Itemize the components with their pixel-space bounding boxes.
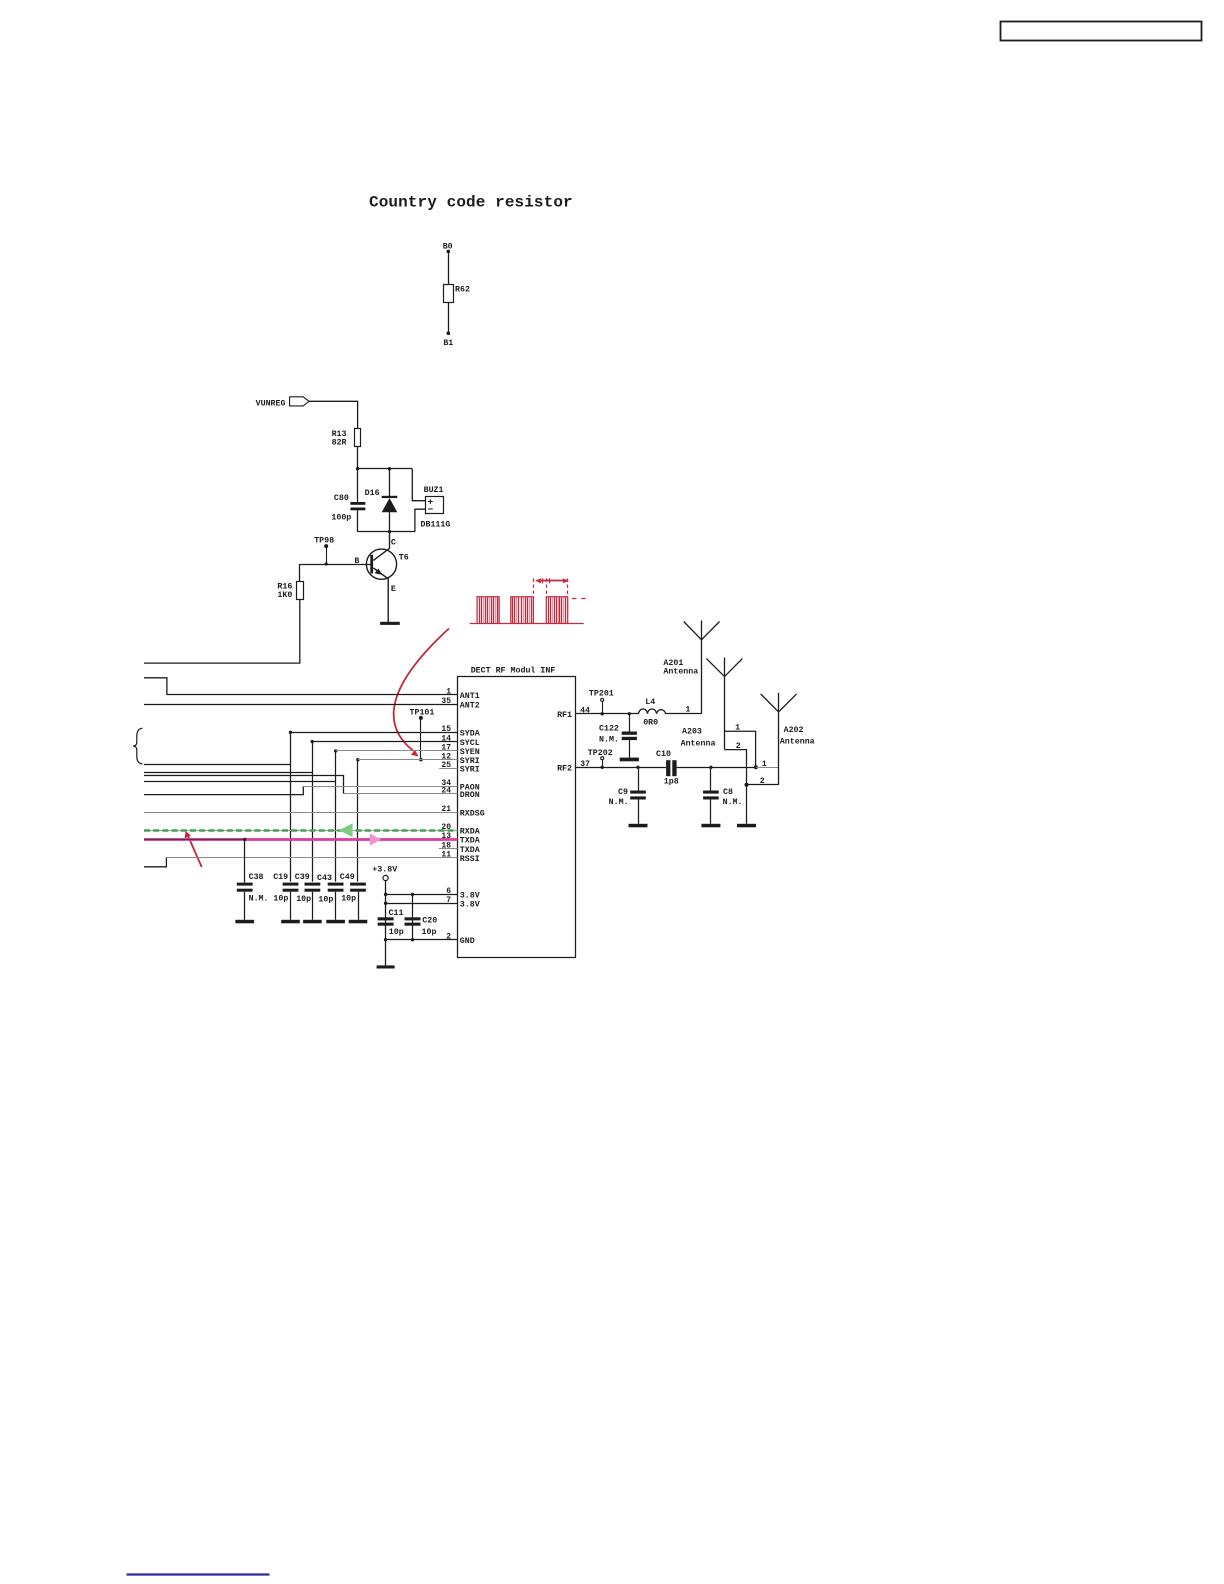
svg-text:20: 20 (441, 823, 451, 832)
svg-text:A202: A202 (784, 726, 804, 735)
svg-text:1K0: 1K0 (277, 591, 292, 600)
junction node C122 (628, 712, 631, 715)
svg-text:10p: 10p (341, 894, 356, 903)
svg-text:+3.8V: +3.8V (372, 866, 397, 875)
antenna A203 (724, 658, 726, 750)
wire buzzer minus (415, 509, 425, 532)
svg-text:13: 13 (441, 832, 451, 841)
svg-text:N.M.: N.M. (249, 894, 269, 903)
svg-text:Country code resistor: Country code resistor (369, 194, 573, 212)
svg-text:TXDA: TXDA (460, 837, 480, 846)
svg-text:1: 1 (735, 723, 740, 732)
pin 17 SYEN wire (336, 750, 458, 752)
svg-text:Antenna: Antenna (681, 740, 716, 749)
svg-text:RF2: RF2 (557, 765, 572, 774)
svg-text:10p: 10p (273, 894, 288, 903)
svg-text:TP98: TP98 (314, 536, 334, 545)
svg-text:RSSI: RSSI (460, 855, 480, 864)
node B1 (447, 331, 451, 335)
ground under +3.8V rail (377, 965, 395, 968)
svg-text:2: 2 (760, 777, 765, 786)
svg-text:−: − (428, 504, 434, 515)
svg-text:1: 1 (446, 687, 451, 696)
svg-text:7: 7 (446, 896, 451, 905)
pin 12 SYRI wire (358, 759, 458, 761)
capacitor C9 N.M. (636, 766, 639, 769)
svg-text:DECT RF Modul INF: DECT RF Modul INF (471, 666, 556, 676)
pin 20 RXDA wire (green dashed) (144, 830, 458, 832)
pin 24 DRON wire (344, 793, 458, 795)
svg-text:10p: 10p (318, 895, 333, 904)
svg-text:C122: C122 (599, 725, 619, 734)
ground under C39 (303, 920, 322, 924)
svg-text:RF1: RF1 (557, 711, 572, 720)
svg-text:10p: 10p (422, 928, 437, 937)
capacitor C39 10p (305, 883, 321, 886)
wire SYDA column (290, 732, 292, 881)
svg-text:TXDA: TXDA (460, 846, 480, 855)
junction node A203 pin1 / RF2 (754, 765, 758, 769)
svg-text:E: E (391, 585, 396, 594)
svg-text:C8: C8 (723, 788, 733, 797)
svg-text:ANT1: ANT1 (460, 692, 480, 701)
ground under C9 (629, 824, 648, 828)
capacitor C80 100p (357, 469, 359, 502)
svg-text:3.8V: 3.8V (460, 901, 480, 910)
wire L4 to A201 (666, 713, 702, 715)
ground under C38 (235, 920, 254, 924)
svg-text:35: 35 (441, 697, 451, 706)
svg-text:100p: 100p (331, 514, 351, 523)
link underline (blue) (127, 1573, 270, 1575)
svg-text:25: 25 (441, 761, 451, 770)
wire top rail (358, 468, 413, 470)
capacitor C11 10p (378, 917, 394, 920)
svg-text:GND: GND (460, 937, 475, 946)
svg-text:21: 21 (441, 805, 451, 814)
waveform dashed extension lines (533, 579, 535, 597)
wire return to ground (746, 785, 748, 824)
svg-text:C38: C38 (249, 873, 264, 882)
svg-text:SYRI: SYRI (460, 766, 480, 775)
waveform dimension arrow (537, 580, 567, 582)
svg-text:3.8V: 3.8V (460, 892, 480, 901)
capacitor C49 10p (350, 883, 366, 886)
svg-text:ANT2: ANT2 (460, 701, 480, 710)
ground at emitter (380, 622, 400, 625)
wire C10 to A203 junction (677, 767, 756, 769)
wire R62 to B1 (448, 302, 450, 333)
waveform tick dashes on dimension line (542, 578, 544, 583)
svg-text:2: 2 (446, 933, 451, 942)
svg-text:A203: A203 (682, 728, 702, 737)
wire SYEN column (335, 751, 337, 882)
svg-text:RXDSG: RXDSG (460, 809, 485, 818)
svg-text:TP201: TP201 (589, 690, 614, 699)
svg-text:Antenna: Antenna (663, 668, 698, 677)
wire DRON link (144, 776, 344, 794)
svg-text:DRON: DRON (460, 791, 480, 800)
pin 14 SYCL wire (312, 741, 457, 743)
svg-text:C10: C10 (656, 750, 671, 759)
junction node return (745, 783, 749, 787)
wire SYEN link (144, 781, 336, 783)
ground under C122 (620, 758, 639, 762)
resistor R62 (444, 285, 454, 303)
pin 18 TXDA (439, 848, 458, 850)
capacitor C38 N.M. (244, 839, 246, 882)
svg-text:C39: C39 (295, 873, 310, 882)
svg-text:DB111G: DB111G (421, 520, 451, 529)
pin 1 ANT1 wire (144, 678, 458, 695)
wire VUNREG to R13 (309, 401, 358, 428)
wire bottom rail (358, 531, 415, 533)
capacitor C20 10p (412, 894, 414, 939)
wire B0 to R62 (448, 251, 450, 284)
antenna A201 (701, 621, 703, 714)
wire SYCL column (312, 742, 314, 882)
svg-text:10p: 10p (296, 895, 311, 904)
svg-text:18: 18 (441, 841, 451, 850)
svg-text:C9: C9 (618, 788, 628, 797)
pin 13 TXDA wire (magenta) (144, 838, 458, 841)
ground under antenna return (737, 824, 756, 828)
ground under C49 (349, 920, 368, 924)
svg-text:C80: C80 (334, 494, 349, 503)
green arrow (receive direction) (339, 823, 353, 837)
svg-text:15: 15 (441, 725, 451, 734)
svg-text:C: C (391, 539, 396, 548)
svg-text:C49: C49 (340, 873, 355, 882)
pin 11 RSSI wire (144, 858, 166, 867)
capacitor C43 10p (328, 883, 344, 886)
svg-text:0R0: 0R0 (643, 719, 658, 728)
svg-text:C43: C43 (317, 874, 332, 883)
antenna A202 (778, 693, 780, 785)
pin 21 RXDSG wire (144, 812, 458, 814)
wire +3.8V rail (385, 881, 387, 966)
svg-text:10p: 10p (389, 928, 404, 937)
pin 25 SYRI (439, 768, 457, 770)
annotation red arc to TP101 (394, 629, 449, 752)
wire A202 pin 2 (747, 784, 779, 786)
resistor R13 (355, 429, 361, 447)
svg-text:82R: 82R (332, 439, 347, 448)
capacitor C8 N.M. (709, 766, 712, 769)
svg-text:R62: R62 (455, 285, 470, 294)
ground under C8 (701, 824, 720, 828)
pin 15 SYDA wire (291, 732, 458, 734)
wire A203 pin 2 (725, 750, 747, 785)
bus brace (left) (133, 728, 142, 764)
pin 34 PAON wire (303, 786, 457, 788)
annotation red arrow at RXDA/TXDA (188, 836, 202, 867)
svg-text:17: 17 (441, 744, 451, 753)
svg-text:2: 2 (736, 742, 741, 751)
svg-text:6: 6 (446, 887, 451, 896)
svg-text:1: 1 (762, 760, 767, 769)
ground under C43 (326, 920, 345, 924)
svg-text:SYDA: SYDA (460, 730, 480, 739)
wire R16 to left edge (144, 600, 300, 663)
svg-text:C20: C20 (422, 917, 437, 926)
junction node at D16 top (388, 467, 391, 470)
wire A203 pin 1 (725, 731, 756, 767)
svg-text:C11: C11 (389, 909, 404, 918)
wire SYCL link (144, 772, 312, 774)
magenta arrow (transmit direction) (370, 833, 381, 845)
ground under C19 (281, 920, 300, 924)
waveform trailing dashes (572, 598, 576, 600)
inductor L4 0R0 (639, 709, 666, 714)
capacitor C10 1p8 (series) (666, 760, 670, 776)
svg-text:D16: D16 (365, 489, 380, 498)
svg-text:1: 1 (685, 706, 690, 715)
diode D16 (389, 469, 391, 496)
pin 44 RF1 wire (575, 713, 638, 715)
buzzer BUZ1 DB111G (426, 497, 444, 514)
wire RF2 to A202 (756, 767, 779, 769)
svg-text:N.M.: N.M. (609, 798, 629, 807)
pin 37 RF2 wire (575, 767, 666, 769)
pin 2 GND wire (386, 939, 458, 941)
svg-text:N.M.: N.M. (723, 798, 743, 807)
pin 35 ANT2 wire (144, 704, 458, 706)
annotation waveform (red TDMA bursts) (470, 597, 584, 624)
capacitor C19 10p (283, 883, 299, 886)
svg-text:SYCL: SYCL (460, 739, 480, 748)
junction node (356, 467, 359, 470)
svg-text:1p8: 1p8 (664, 777, 679, 786)
svg-text:T6: T6 (399, 553, 409, 562)
svg-text:14: 14 (441, 734, 451, 743)
svg-text:VUNREG: VUNREG (256, 399, 286, 408)
svg-text:RXDA: RXDA (460, 828, 480, 837)
wire buzzer plus (412, 469, 425, 501)
svg-text:Antenna: Antenna (780, 737, 815, 746)
wire SYDA link (144, 764, 291, 766)
svg-text:SYEN: SYEN (460, 748, 480, 757)
svg-text:L4: L4 (645, 698, 655, 707)
IC box DECT RF Modul INF (458, 677, 576, 958)
resistor R16 1K0 (300, 564, 372, 566)
wire PAON link (144, 786, 303, 794)
pin 7 wire (386, 903, 458, 905)
empty title box (top right) (1001, 22, 1202, 41)
svg-text:TP202: TP202 (588, 749, 613, 758)
svg-text:11: 11 (441, 850, 451, 859)
junction node collector rail (388, 530, 391, 533)
wire R13 to junction (357, 446, 359, 469)
pin 6 wire (386, 894, 458, 896)
svg-text:B1: B1 (443, 339, 453, 348)
svg-text:BUZ1: BUZ1 (424, 486, 444, 495)
capacitor C122 N.M. (629, 714, 631, 732)
wire SYRI column (357, 760, 359, 882)
svg-text:C19: C19 (273, 873, 288, 882)
svg-text:24: 24 (441, 787, 451, 796)
svg-text:N.M.: N.M. (599, 735, 619, 744)
